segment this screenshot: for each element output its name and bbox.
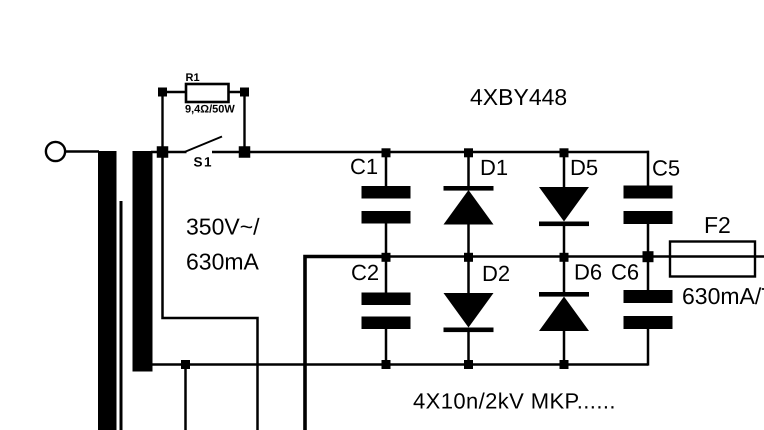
node bottom drop junction bbox=[181, 360, 190, 369]
node C1 top bbox=[382, 148, 391, 157]
wire D5 bottom lead bbox=[563, 225, 566, 257]
wire D5 top lead bbox=[563, 152, 566, 188]
node C1-C2 junction bbox=[382, 253, 391, 262]
node D2 bottom bbox=[464, 360, 473, 369]
svg-text:F2: F2 bbox=[704, 212, 731, 238]
svg-text:630mA/T: 630mA/T bbox=[682, 283, 764, 309]
node R1 left bbox=[158, 88, 167, 97]
wire C5 top lead bbox=[647, 151, 650, 187]
diode D1 bbox=[444, 190, 494, 225]
wire C1 top lead bbox=[385, 152, 388, 188]
svg-text:C2: C2 bbox=[351, 260, 379, 285]
svg-text:S1: S1 bbox=[194, 155, 214, 170]
diode D6 bbox=[539, 297, 589, 332]
wire D6 bottom lead bbox=[563, 330, 566, 365]
node C2 bottom bbox=[382, 360, 391, 369]
svg-text:9,4Ω/50W: 9,4Ω/50W bbox=[185, 104, 235, 116]
transformer primary winding bbox=[98, 151, 117, 430]
wire D1 top lead bbox=[467, 152, 470, 190]
diode D6 cathode bar bbox=[539, 292, 589, 297]
capacitor C5 bbox=[624, 186, 673, 199]
node D6 bottom bbox=[560, 360, 569, 369]
switch S1 lever bbox=[185, 137, 223, 153]
diode D2 bbox=[444, 293, 494, 328]
wire S1 junction drop to bottom bbox=[163, 152, 258, 430]
wire C2 bottom lead bbox=[385, 328, 388, 365]
input terminal J1 bbox=[46, 142, 65, 161]
diode D5 bbox=[539, 187, 589, 222]
wire R1 right lead bbox=[228, 91, 245, 93]
wire D2 top lead bbox=[467, 257, 470, 295]
svg-text:C1: C1 bbox=[350, 154, 378, 179]
wire top rail left bbox=[151, 151, 187, 154]
svg-text:C6: C6 bbox=[611, 260, 639, 285]
svg-text:350V~/: 350V~/ bbox=[186, 214, 260, 240]
wire C1 bottom lead bbox=[385, 223, 388, 257]
node S1 left junction bbox=[157, 146, 169, 158]
svg-text:4XBY448: 4XBY448 bbox=[470, 84, 567, 110]
node C5-C6 junction bbox=[643, 251, 654, 262]
node D5 top bbox=[560, 148, 569, 157]
node S1 right junction bbox=[239, 146, 251, 158]
wire C5-C6 link bbox=[647, 224, 650, 292]
capacitor C6 bbox=[624, 290, 673, 303]
wire bottom drop bbox=[184, 365, 187, 430]
wire R1 left lead bbox=[163, 91, 187, 93]
svg-text:C5: C5 bbox=[652, 156, 680, 181]
wire R1 left vertical bbox=[161, 92, 163, 152]
svg-text:D1: D1 bbox=[480, 155, 508, 180]
wire C2 top lead bbox=[385, 257, 388, 295]
diode D1 cathode bar bbox=[444, 186, 494, 191]
svg-text:D2: D2 bbox=[482, 261, 510, 286]
wire C6 bottom lead bbox=[647, 329, 650, 366]
svg-text:630mA: 630mA bbox=[186, 249, 260, 275]
node D1 top bbox=[464, 148, 473, 157]
wire top rail bbox=[212, 151, 649, 154]
wire R1 right vertical bbox=[243, 92, 245, 152]
svg-text:R1: R1 bbox=[186, 72, 200, 84]
svg-text:4X10n/2kV MKP......: 4X10n/2kV MKP...... bbox=[413, 389, 616, 414]
node D1-D2 junction bbox=[464, 253, 473, 262]
wire D1 bottom lead bbox=[467, 224, 470, 257]
wire D2 bottom lead bbox=[467, 331, 470, 365]
transformer secondary winding bbox=[133, 151, 153, 372]
wire C2 thick branch bbox=[305, 257, 388, 430]
node D5-D6 junction bbox=[560, 253, 569, 262]
diode D2 cathode bar bbox=[444, 328, 494, 333]
capacitor C1 bbox=[362, 186, 411, 199]
capacitor C2 bbox=[362, 293, 411, 306]
transformer core bbox=[120, 201, 123, 430]
diode D5 cathode bar bbox=[539, 222, 589, 227]
wire middle rail bbox=[386, 255, 764, 257]
resistor R1 body bbox=[186, 84, 229, 102]
node R1 right bbox=[240, 88, 249, 97]
wire bottom rail bbox=[151, 363, 648, 366]
svg-text:D6: D6 bbox=[574, 260, 602, 285]
svg-text:D5: D5 bbox=[570, 155, 598, 180]
wire terminal to primary bbox=[66, 150, 100, 152]
wire D6 top lead bbox=[563, 257, 566, 294]
fuse F2 bbox=[670, 242, 755, 277]
